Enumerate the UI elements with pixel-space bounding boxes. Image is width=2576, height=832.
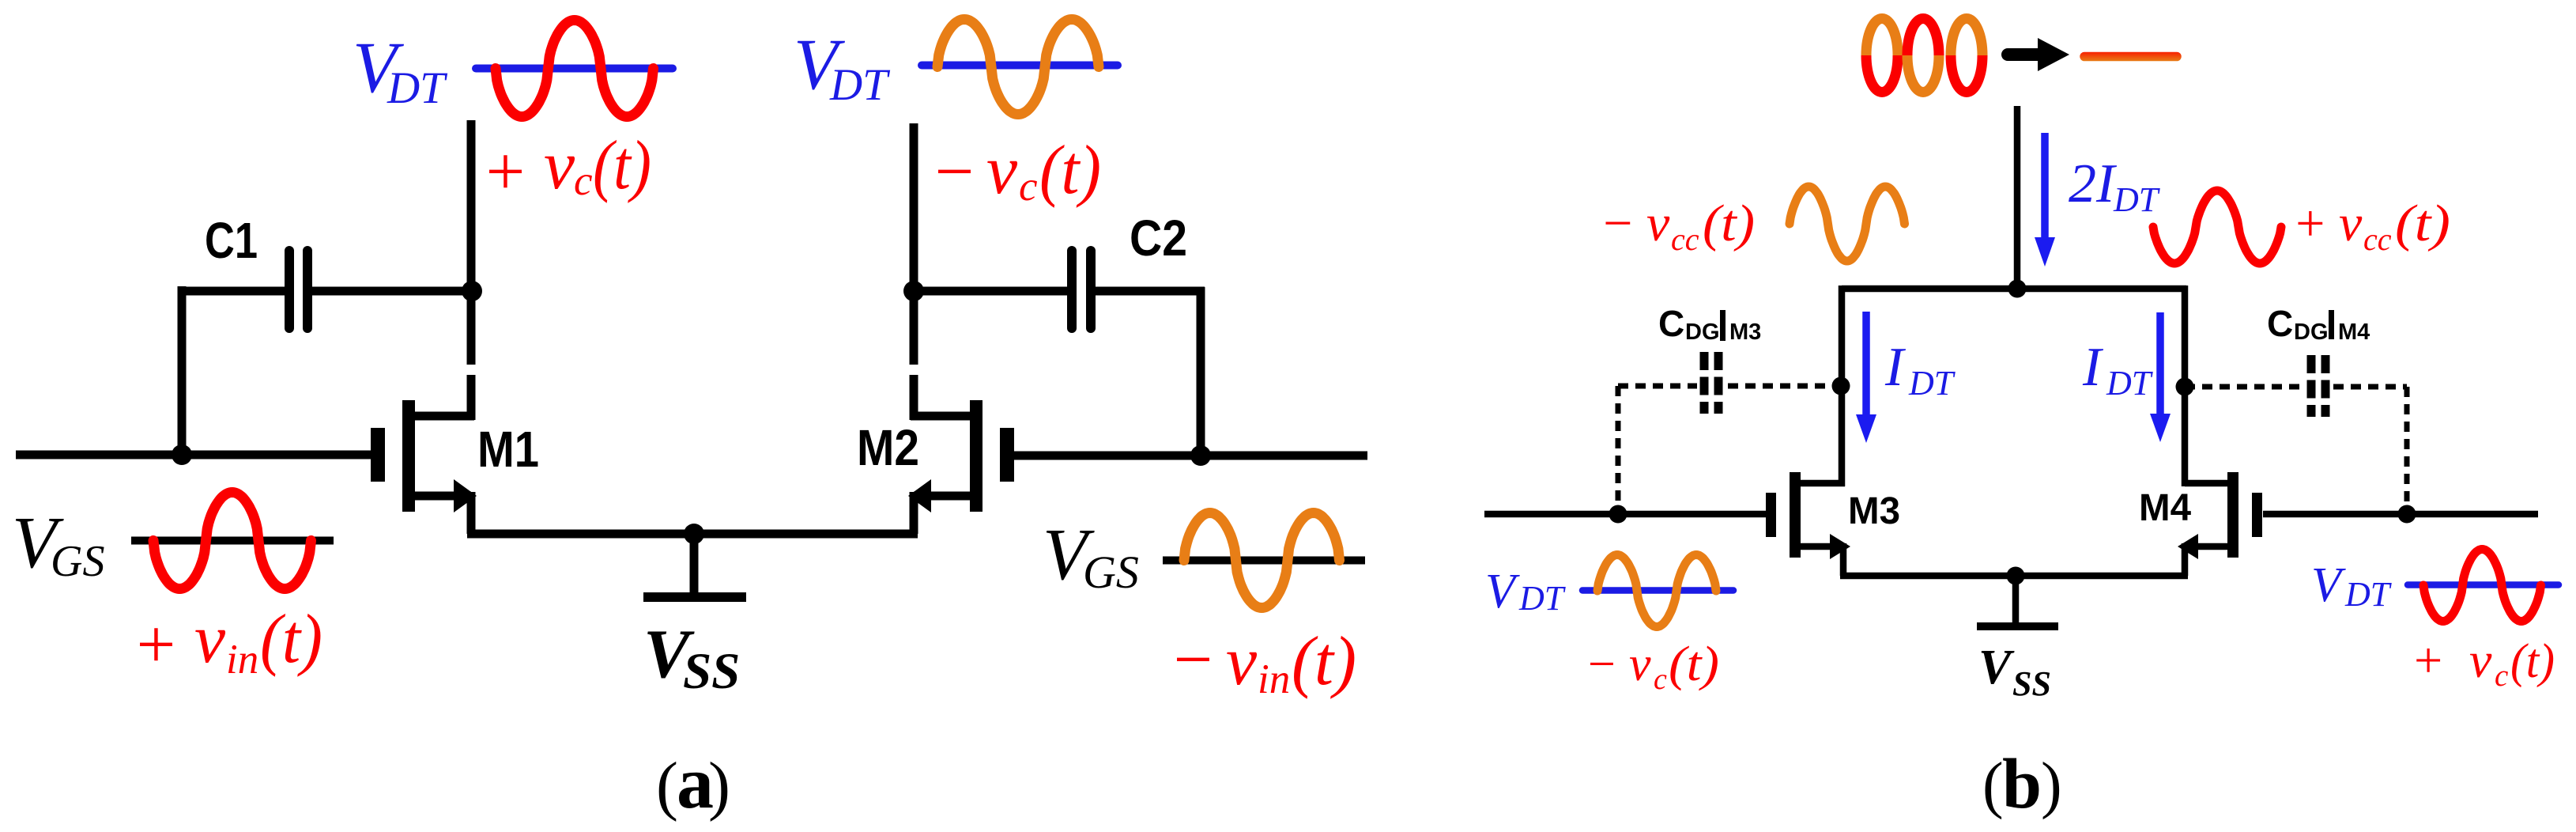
svg-text:I: I [1884,337,1907,398]
svg-text:(t): (t) [260,601,322,678]
svg-text:DT: DT [387,63,448,113]
svg-text:in: in [226,637,258,683]
svg-text:GS: GS [1083,546,1139,598]
svg-text:V: V [2311,558,2346,612]
svg-text:v: v [1226,623,1258,700]
svg-text:C1: C1 [205,212,258,269]
svg-text:v: v [2469,632,2492,688]
svg-text:DT: DT [2113,180,2161,219]
svg-text:M4: M4 [2139,487,2191,529]
svg-text:): ) [2041,751,2062,820]
svg-text:DT: DT [1518,579,1567,618]
svg-text:V: V [1485,565,1520,618]
svg-text:M2: M2 [857,419,919,476]
svg-text:C: C [1658,303,1684,344]
svg-text:+: + [2292,195,2328,252]
svg-text:+: + [481,134,528,210]
svg-text:M4: M4 [2338,320,2370,345]
svg-text:M3: M3 [1729,320,1761,345]
svg-text:c: c [574,158,593,204]
svg-text:−: − [1169,622,1216,698]
svg-text:c: c [2495,659,2508,693]
svg-text:): ) [708,749,730,823]
svg-text:(t): (t) [1703,195,1755,252]
svg-text:+: + [132,607,179,683]
svg-text:(t): (t) [2510,635,2555,688]
svg-text:(t): (t) [1039,132,1101,209]
svg-text:(t): (t) [593,127,651,204]
svg-text:−: − [930,134,977,210]
svg-text:DG: DG [1685,320,1720,345]
svg-text:DT: DT [1908,364,1956,403]
svg-text:C2: C2 [1130,210,1187,267]
svg-text:in: in [1258,656,1290,702]
svg-text:c: c [1654,663,1667,696]
svg-text:V: V [1978,641,2015,694]
svg-text:−: − [1585,637,1618,691]
svg-text:(: ( [656,749,678,823]
svg-text:C: C [2267,303,2293,344]
svg-text:c: c [1019,164,1038,210]
svg-text:v: v [544,127,575,204]
svg-text:v: v [986,132,1018,209]
svg-text:(: ( [1982,751,2004,820]
svg-text:b: b [2002,745,2042,823]
svg-text:cc: cc [1671,221,1699,257]
svg-text:(t): (t) [2395,195,2450,252]
svg-text:v: v [2339,195,2363,252]
svg-text:GS: GS [51,537,104,586]
svg-text:M1: M1 [477,421,539,478]
svg-text:+: + [2411,632,2445,688]
svg-text:SS: SS [683,643,740,700]
svg-text:DT: DT [829,60,891,110]
svg-text:−: − [1600,195,1635,252]
svg-text:DT: DT [2344,575,2393,614]
svg-text:DG: DG [2294,320,2329,345]
svg-text:(t): (t) [1292,623,1356,700]
svg-text:2I: 2I [2069,153,2118,214]
svg-text:I: I [2082,337,2104,398]
svg-text:v: v [1629,637,1651,691]
svg-text:cc: cc [2363,221,2392,257]
svg-text:DT: DT [2106,364,2154,403]
svg-text:M3: M3 [1848,490,1900,532]
svg-text:SS: SS [2012,664,2051,703]
svg-text:v: v [1646,195,1670,252]
svg-text:(t): (t) [1669,637,1719,691]
svg-text:v: v [194,601,226,678]
